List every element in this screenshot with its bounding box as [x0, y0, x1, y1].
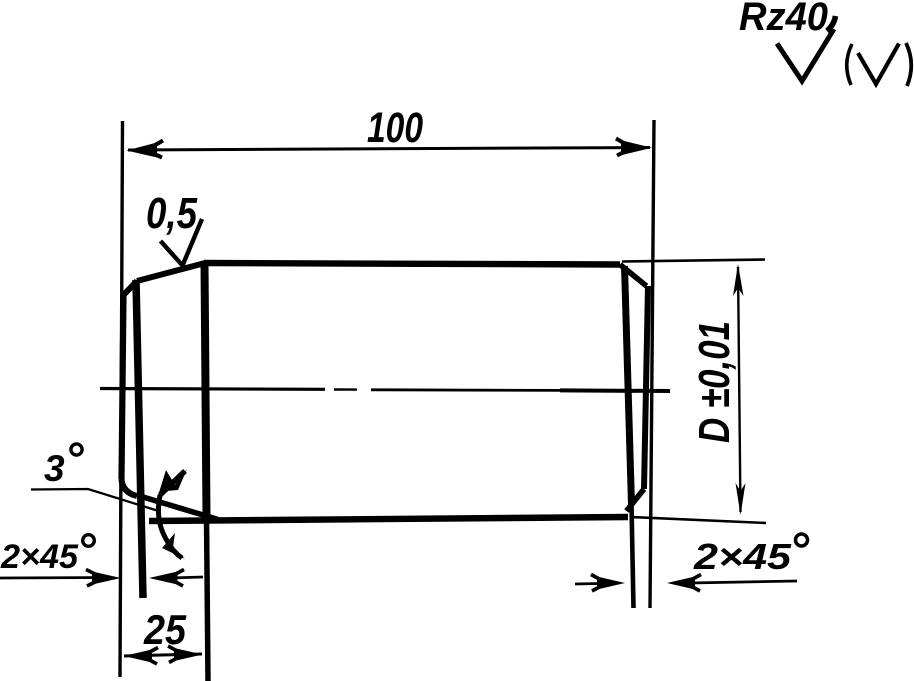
svg-text:Rz40: Rz40: [739, 0, 828, 39]
svg-text:2×45: 2×45: [693, 536, 792, 577]
dimension line 2x45 left outer: [0, 576, 110, 579]
centerline: [100, 387, 325, 391]
arrowhead down of dimension D: [736, 483, 746, 515]
taper boundary line (x=205): [205, 263, 207, 517]
arrowhead right of dimension 100: [621, 140, 652, 155]
right chamfer edge line (x=628): [625, 266, 632, 505]
arrowhead right of dimension 25: [174, 648, 203, 661]
svg-text:D ±0,01: D ±0,01: [690, 321, 739, 443]
arrowhead left of dimension 25: [124, 650, 153, 663]
arrowhead up of dimension D: [733, 264, 744, 296]
curved arrow top arrowhead: [157, 469, 187, 499]
top edge extension line (for D dimension): [622, 260, 765, 262]
svg-text:100: 100: [367, 104, 423, 152]
degree circle of 2x45 right: [796, 534, 808, 546]
part outline: left end face: [122, 295, 124, 479]
arrowhead of 2x45 left pointing left: [149, 572, 178, 585]
leader line of 3 degrees: [31, 489, 157, 511]
dimension line 25: [124, 654, 202, 656]
parenthesis right of (v) symbol: [906, 43, 911, 86]
bottom edge extension line (for D dimension): [630, 517, 766, 523]
arrowhead of 2x45 right pointing left: [667, 577, 695, 590]
part outline: top edge of cylinder: [204, 263, 620, 265]
dimension line 2x45 right outer tail: [575, 582, 600, 585]
extension line right (x=651): [650, 120, 654, 608]
part outline: bottom edge of tapered section: [138, 496, 218, 520]
extension line left (x=121): [120, 121, 123, 677]
taper boundary extension line down to 25 dimension: [207, 517, 209, 681]
arrowhead left of dimension 100: [127, 143, 158, 158]
svg-text:3: 3: [44, 448, 65, 489]
arrowhead of 2x45 right pointing right: [597, 577, 625, 590]
part outline: top-left chamfer: [124, 281, 138, 295]
curved arrow top barb stroke: [160, 471, 185, 495]
curved arrow bottom arrowhead: [162, 533, 185, 559]
roughness check mark under Rz40: [777, 29, 834, 81]
part outline: bottom-right chamfer: [627, 489, 645, 511]
parenthesis left of (v) symbol: [847, 44, 852, 85]
comma tick after Rz40: [827, 16, 836, 31]
part outline: right end face: [644, 286, 648, 489]
part outline: bottom-left chamfer (rounded): [122, 479, 138, 496]
svg-text:25: 25: [143, 606, 186, 653]
arrowhead of 2x45 left pointing right: [92, 572, 121, 585]
dimension line 2x45 left inner tail: [170, 577, 203, 578]
dimension line 100: [128, 148, 650, 151]
curved arrow arc (3 degree taper indicator): [158, 495, 182, 558]
dimension line D: [738, 267, 741, 512]
check mark of (v) symbol: [858, 44, 899, 85]
degree circle of 2x45 left: [83, 535, 95, 547]
svg-text:0,5: 0,5: [146, 189, 197, 238]
left chamfer edge line (x=140), extends below as extension line: [136, 280, 143, 598]
part outline: top edge of tapered section: [137, 263, 205, 281]
part outline: top-right chamfer: [620, 265, 647, 287]
check mark under 0,5: [161, 219, 203, 266]
degree circle of 3: [71, 444, 82, 455]
dimension line 2x45 right inner tail: [690, 581, 797, 583]
svg-text:2×45: 2×45: [0, 538, 79, 576]
part outline: bottom edge of cylinder: [149, 517, 628, 521]
right chamfer edge extension line below: [632, 505, 634, 608]
